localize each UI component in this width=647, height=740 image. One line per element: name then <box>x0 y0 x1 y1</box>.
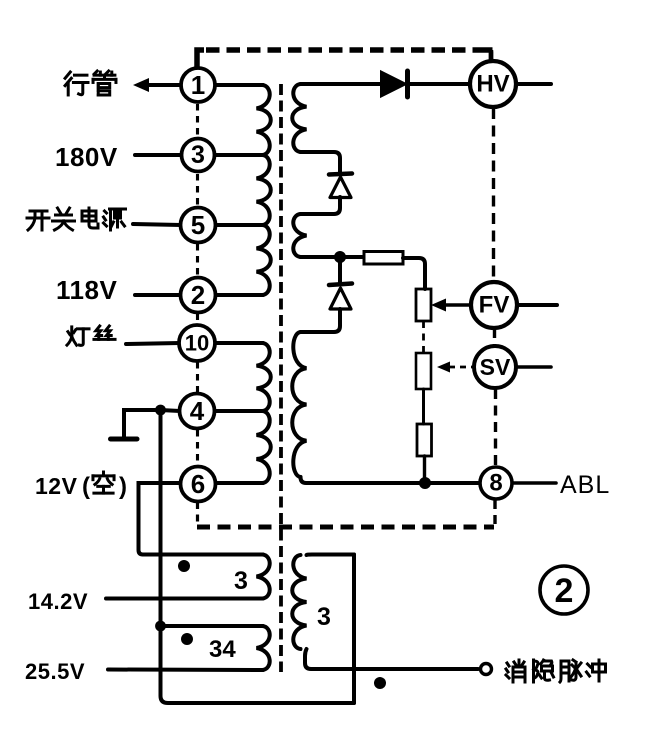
wire 灯丝 lead to pin10 <box>126 343 180 344</box>
svg-text:3: 3 <box>317 603 331 631</box>
pin circle pin10 <box>179 325 215 361</box>
dashed link SV-8 <box>494 389 497 466</box>
HV top stub from dashed corner <box>489 52 494 62</box>
FV wiper arrowhead <box>431 299 446 312</box>
SV right wire <box>516 365 551 369</box>
FV right wire <box>517 303 557 307</box>
primary winding section 4-6 <box>257 411 271 483</box>
junction dot at ground/pin4 <box>155 405 166 416</box>
pin circle terminal HV <box>470 61 516 107</box>
tap wire pin4 to winding <box>214 409 263 413</box>
pin circle terminal SV <box>474 346 516 388</box>
winding W3R top lead <box>307 553 355 558</box>
wire 180V lead to pin3 <box>135 153 181 157</box>
pin circle pin4 <box>180 394 215 429</box>
label 消隐脉冲 <box>506 660 525 682</box>
ground bar <box>111 437 138 442</box>
svg-text:(: ( <box>82 473 90 500</box>
winding W3 top lead <box>143 553 263 557</box>
diode D1 triangle <box>381 72 406 97</box>
resistor R1 body <box>364 252 403 265</box>
svg-text:118V: 118V <box>56 275 117 305</box>
arrowhead on 行管 wire <box>133 78 149 92</box>
label 开关电源 <box>27 211 49 230</box>
svg-text:34: 34 <box>209 636 236 663</box>
potentiometer RP2 (screen) body <box>416 353 431 389</box>
diode D3 triangle <box>330 288 351 309</box>
winding W34 bottom lead / 25.5V wire <box>108 668 263 673</box>
FV wiper wire <box>443 303 471 307</box>
pin chain dashed link 4-6 <box>196 430 199 465</box>
secondary sec2 bottom lead to junction <box>301 255 363 259</box>
pin circle terminal FV <box>471 282 517 328</box>
tap wire pin3 to winding <box>215 153 263 157</box>
primary winding section 10-4 <box>257 343 271 411</box>
pin8 right wire to ABL <box>512 481 556 485</box>
junction dot bus/winding34 <box>155 621 166 632</box>
wire D2 to sec2 top <box>301 197 341 214</box>
SV wiper dashed wire <box>449 366 473 369</box>
svg-text:ABL: ABL <box>560 471 610 499</box>
dashed link HV-FV <box>492 108 495 281</box>
svg-text:): ) <box>119 473 127 500</box>
svg-text:2: 2 <box>555 572 574 610</box>
wire 12V lead to pin6 (with corner down) <box>139 483 182 555</box>
pin chain dashed link 6-border <box>196 502 199 526</box>
winding W3 humps <box>257 555 270 599</box>
blanking output terminal (open circle) <box>481 664 492 675</box>
winding W3R bottom lead to blanking output <box>305 649 478 669</box>
wire ground junction to pin4 <box>160 410 180 411</box>
secondary winding top section <box>292 84 306 152</box>
HV right wire <box>516 82 551 86</box>
secondary winding tall section <box>292 332 306 477</box>
svg-text:180V: 180V <box>55 142 118 172</box>
diode D1 cathode bar <box>405 71 410 97</box>
primary winding section 3-5 <box>257 155 271 225</box>
svg-text:SV: SV <box>480 354 511 380</box>
wire 行管 lead to pin1 <box>143 83 181 87</box>
secondary sec1 bottom lead to D2 <box>301 152 341 173</box>
svg-text:8: 8 <box>489 470 502 497</box>
pin chain dashed link 1-3 <box>196 104 199 136</box>
dashed link RP1-RP2 <box>422 321 425 353</box>
label 行管 <box>65 72 88 95</box>
wire 118V lead to pin2 <box>135 293 181 297</box>
svg-text:3: 3 <box>191 141 205 169</box>
svg-text:10: 10 <box>185 331 209 356</box>
tap wire pin6 to winding <box>215 481 263 485</box>
primary winding section 5-2 <box>257 225 271 295</box>
secondary sec3 bottom lead to ABL line <box>301 477 481 483</box>
svg-text:FV: FV <box>479 292 510 319</box>
tap wire pin2 to winding <box>215 293 263 297</box>
wire 开关电源 lead to pin5 <box>133 224 181 225</box>
pin chain dashed link 3-5 <box>196 174 199 206</box>
dashed link 8-border <box>493 500 496 527</box>
wire junction down to D3 <box>338 257 342 284</box>
dashed link FV-SV <box>493 329 496 346</box>
primary winding section 1-3 <box>257 85 271 155</box>
tap wire pin5 to winding <box>215 223 263 227</box>
tap wire pin10 to winding <box>214 341 263 345</box>
junction dot resistor node <box>334 251 346 263</box>
diode D3 cathode bar <box>329 284 352 286</box>
secondary top lead wire to diode <box>301 82 382 86</box>
svg-text:12V: 12V <box>35 473 78 499</box>
diode D2 triangle <box>330 177 351 198</box>
winding W34 humps <box>257 626 270 670</box>
winding W3 polarity dot <box>178 560 190 572</box>
ground wire L <box>124 410 160 437</box>
pin circle pin2 <box>181 278 216 313</box>
pin chain dashed link 5-2 <box>196 244 199 276</box>
winding W34 polarity dot <box>181 633 193 645</box>
junction dot on ABL line <box>419 477 431 489</box>
winding W3R humps <box>292 555 306 649</box>
dashed enclosure top border <box>197 50 204 68</box>
pin circle pin3 <box>182 139 215 172</box>
svg-text:5: 5 <box>191 210 205 240</box>
secondary winding middle section <box>293 214 306 257</box>
svg-text:1: 1 <box>191 70 205 100</box>
label 灯丝 <box>67 327 89 345</box>
polarity dot blanking winding <box>374 677 386 689</box>
winding W34 top lead <box>161 624 264 628</box>
label 空 (inside parens) <box>93 472 114 493</box>
svg-text:3: 3 <box>234 567 248 595</box>
dashed enclosure bottom border <box>197 525 494 530</box>
wire diode D1 to HV <box>410 82 471 86</box>
potentiometer RP1 (focus) body <box>416 289 431 321</box>
figure number circled 2 <box>540 566 588 614</box>
transformer core (dashed) <box>279 84 283 672</box>
svg-text:4: 4 <box>190 396 205 426</box>
svg-text:2: 2 <box>191 280 205 310</box>
pin chain dashed link 2-10 <box>196 314 199 325</box>
winding W3 bottom lead / 14.2V wire <box>106 597 263 601</box>
wire RP2 to R2 <box>422 389 425 424</box>
svg-text:6: 6 <box>191 469 205 499</box>
pin circle pin1 <box>181 68 215 102</box>
pin circle pin5 <box>181 208 216 243</box>
wire R2 down to ABL line <box>423 456 426 483</box>
wire D3 to sec3 top <box>301 309 341 332</box>
winding W3R right side loop wire <box>352 555 356 704</box>
pin circle pin6 <box>181 467 216 502</box>
svg-text:25.5V: 25.5V <box>25 659 85 684</box>
resistor R1 right lead <box>403 258 425 289</box>
svg-text:HV: HV <box>476 71 509 98</box>
vertical bus wire from ground junction down <box>161 410 355 703</box>
SV wiper arrowhead <box>437 362 450 373</box>
svg-text:14.2V: 14.2V <box>28 589 88 614</box>
pin circle pin8 <box>480 467 512 499</box>
diode D2 cathode bar <box>329 174 352 175</box>
tap wire pin1 to winding <box>215 83 263 87</box>
resistor R2 body <box>417 424 432 456</box>
pin chain dashed link 10-4 <box>196 362 199 392</box>
